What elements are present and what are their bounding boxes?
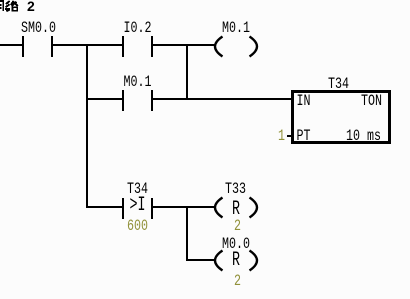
svg-text:T34: T34 — [328, 75, 349, 93]
rung 1 wire: left rail to SM0.0 — [0, 44, 22, 46]
vertical wire A (branch below SM0.0) — [86, 44, 88, 208]
svg-text:2: 2 — [234, 217, 241, 235]
wire SM0.0 to I0.2 — [53, 44, 122, 46]
compare contact T34 >I 600 — [122, 180, 153, 235]
svg-text:R: R — [232, 249, 240, 272]
svg-text:I0.2: I0.2 — [124, 19, 152, 37]
svg-text:2: 2 — [27, 0, 35, 14]
rung 3 wire: branch A to compare contact — [87, 206, 122, 208]
svg-text:600: 600 — [127, 217, 148, 235]
svg-text:M0.1: M0.1 — [124, 73, 152, 91]
contact I0.2 — [122, 19, 153, 57]
contact M0.1 — [122, 73, 153, 111]
svg-text:10 ms: 10 ms — [346, 127, 381, 145]
vertical wire B (I0.2 output down to rung 2) — [186, 44, 188, 100]
coil M0.0 (R) — [215, 235, 257, 290]
coil T33 (R) — [215, 180, 257, 235]
wire compare contact to coil T33 — [153, 206, 216, 208]
timer box T34 TON — [293, 75, 390, 145]
wire I0.2 to coil M0.1 — [153, 44, 216, 46]
contact SM0.0 — [21, 19, 56, 57]
svg-text:PT: PT — [297, 127, 311, 145]
svg-text:TON: TON — [361, 92, 382, 110]
svg-text:IN: IN — [297, 92, 311, 110]
svg-text:M0.1: M0.1 — [222, 19, 250, 37]
svg-text:2: 2 — [234, 272, 241, 290]
svg-text:T33: T33 — [225, 180, 246, 198]
wire M0.1 contact to T34 box — [153, 98, 291, 100]
partial CJK char 网 (clipped at left edge) — [0, 0, 4, 11]
vertical wire C (down to rung 4) — [186, 206, 188, 261]
rung 4 wire to coil M0.0 — [187, 259, 216, 261]
CJK char 络 — [5, 1, 18, 12]
svg-text:SM0.0: SM0.0 — [21, 19, 56, 37]
svg-text:1: 1 — [278, 127, 285, 145]
rung 2 wire: branch A to M0.1 contact — [87, 98, 122, 100]
network title 网络 2 — [0, 0, 35, 14]
PT pin stub — [287, 135, 292, 137]
coil M0.1 — [215, 19, 257, 57]
svg-text:>I: >I — [130, 194, 146, 217]
